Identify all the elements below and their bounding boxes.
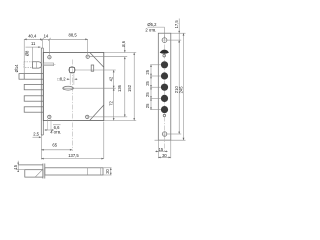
svg-text:4 отв.: 4 отв. [50,129,61,134]
svg-text:20: 20 [105,168,110,173]
svg-text:25: 25 [145,80,150,85]
vertical centre line through follower and keyhole [71,60,73,152]
screw hole bottom-right [85,115,90,120]
deadbolt 4 [24,107,43,112]
svg-text:2 отв.: 2 отв. [145,28,156,33]
lock body outline [43,53,104,121]
bottom fixing hole [162,131,168,137]
deadbolt 3 [24,96,43,101]
dimension 8,6 top edge to hole centre [90,40,128,56]
top dimension line 40,4 / 14 / 88,5 [24,33,87,74]
dimension 65 [41,143,72,151]
dimension 137,5 [41,122,104,160]
dimension 15 (strip, to centre) [155,140,168,158]
dimension 245 [155,33,186,140]
svg-text:245: 245 [178,86,183,94]
callout diameter 5,2 2 holes [145,22,164,38]
hole row circle 4 [161,95,168,102]
hole row circle 1 [161,61,168,68]
top fixing hole 5,2 [162,37,168,43]
svg-text:152: 152 [127,84,132,92]
svg-text:15: 15 [13,164,18,169]
svg-text:11: 11 [31,41,36,46]
dimension 152 body height [104,53,136,121]
dimension 136 between screw holes [89,57,127,117]
svg-text:72: 72 [109,100,114,105]
svg-text:40,4: 40,4 [28,34,37,39]
dimension 2,5 faceplate thickness [33,132,42,139]
dimension 15 (top view) [13,161,25,172]
svg-text:25: 25 [145,92,150,97]
top-right corner brace [90,53,104,68]
top view latch line [18,164,43,166]
svg-text:25: 25 [145,103,150,108]
hole row circle 2 [161,72,168,79]
dimension 11 [26,41,41,62]
latch bolt nose [32,62,41,68]
top view body rectangle [45,168,103,175]
extension from follower [76,69,116,71]
screw hole top-right [85,54,90,59]
svg-text:Ø14: Ø14 [14,64,19,73]
svg-text:2,5: 2,5 [33,132,39,137]
latch tail inside body [43,63,55,66]
dimension 17,5 [174,19,180,43]
hole row circle 3 [161,84,168,91]
callout 6,6 4 holes [45,119,62,134]
hole row circle 5 [161,106,168,113]
screw hole bottom-left [47,115,52,120]
keyhole slot [63,86,74,90]
right dimension column 42 / 72 [63,70,116,121]
svg-text:Ø5,2: Ø5,2 [147,22,157,27]
top view bolt [25,170,43,177]
bottom-right corner brace [90,105,104,121]
svg-text:Ø8: Ø8 [24,50,29,56]
25 spacing dimension chain [145,65,161,110]
deadbolt 1 face line [23,74,25,80]
svg-text:30: 30 [162,153,167,158]
strip centre line [164,36,166,153]
svg-text:14: 14 [44,34,49,39]
dimension square 8,2 [57,77,77,82]
extension from keyhole [63,87,116,89]
dimension 20 body thickness [103,168,112,175]
rectangular slot near right edge [91,65,94,71]
deadbolt 1 (thrown) [19,74,43,80]
svg-text:65: 65 [52,143,57,148]
maker logo [160,50,169,57]
svg-text:88,5: 88,5 [69,33,78,38]
svg-text:17,5: 17,5 [174,20,179,29]
screw hole top-left [47,55,52,60]
small hole below row [163,114,165,116]
dimension 30 strip width [158,140,171,158]
svg-text:42: 42 [108,76,113,81]
svg-text:8,6: 8,6 [121,40,126,46]
faceplate bar (side view) [41,48,43,160]
dimension 210 [166,40,181,134]
svg-text:15: 15 [159,147,164,152]
faceplate strip [158,33,171,140]
svg-text:137,5: 137,5 [68,153,79,158]
handle follower square [69,67,75,85]
svg-text:136: 136 [117,84,122,92]
svg-text:□8,2: □8,2 [57,77,66,82]
deadbolt 2 [24,84,43,89]
svg-text:25: 25 [145,69,150,74]
latch bolt (retracted, dashed) [24,62,32,68]
top view faceplate section [43,164,45,179]
